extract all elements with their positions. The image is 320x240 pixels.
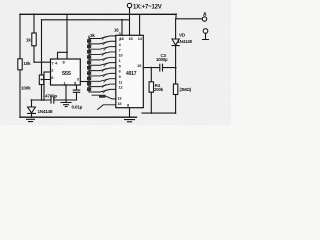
capacitor 0.01u pin5 <box>73 85 79 100</box>
svg-text:15: 15 <box>118 102 122 106</box>
svg-text:1: 1 <box>119 59 121 63</box>
terminal supply circle <box>127 3 131 7</box>
capacitor C3 1000u <box>160 64 163 71</box>
svg-text:1N4148: 1N4148 <box>38 109 54 114</box>
label output pins left column <box>119 32 123 89</box>
svg-text:1X:+7~12V: 1X:+7~12V <box>133 5 162 11</box>
wire pin14 from rail <box>139 14 141 35</box>
resistor 3M <box>175 68 177 84</box>
svg-text:3: 3 <box>119 32 121 36</box>
svg-text:VD: VD <box>179 33 186 38</box>
terminal A top right <box>202 17 206 21</box>
wire pin16 from reset line <box>121 20 123 36</box>
ground symbol left <box>27 119 35 121</box>
svg-text:555: 555 <box>62 71 71 77</box>
wire pin7 to 555 <box>34 61 51 63</box>
wire ground node horizontal <box>32 99 77 101</box>
wire 1k bottom to pin7 node <box>33 46 35 62</box>
ground symbol 4017 <box>125 120 135 122</box>
svg-text:15: 15 <box>129 37 133 41</box>
wire bottom right rail <box>142 112 176 114</box>
terminal output lower <box>203 29 208 34</box>
svg-text:15: 15 <box>137 64 141 68</box>
wire 4017 enable stubs <box>92 95 116 99</box>
svg-text:4700p: 4700p <box>45 93 57 98</box>
capacitor 4700p <box>51 97 54 103</box>
wire pins 4-8 tie <box>58 14 68 59</box>
wire 100k bottom <box>41 85 43 101</box>
wire reset line horizontal <box>42 19 130 21</box>
op-amp U1 555 box <box>51 59 81 85</box>
wire top supply rail <box>20 13 176 15</box>
svg-text:200k: 200k <box>154 87 164 92</box>
node junction dots <box>31 13 177 101</box>
svg-text:12: 12 <box>119 86 123 90</box>
svg-text:100k: 100k <box>21 86 31 91</box>
wire 1k branch from rail <box>33 14 35 33</box>
resistor 100k <box>39 75 43 85</box>
svg-text:9: 9 <box>119 75 121 79</box>
wire pin13 right <box>143 67 175 69</box>
svg-text:11: 11 <box>119 80 123 84</box>
IC U2 4017 box <box>116 35 144 107</box>
wire node vertical x42 <box>41 20 43 75</box>
wire pin1 down <box>65 85 67 100</box>
wire pin2 to 555 <box>44 71 51 73</box>
svg-text:1N4148: 1N4148 <box>178 39 193 44</box>
wire pin8 ground <box>129 108 131 118</box>
svg-text:3k: 3k <box>90 33 95 38</box>
svg-text:13: 13 <box>118 97 122 101</box>
svg-text:A: A <box>203 12 207 18</box>
ground symbol 555 <box>61 100 71 107</box>
wire left vertical rail <box>19 14 21 117</box>
wire pin6 to 555 <box>42 72 51 100</box>
wire pin3 output <box>80 81 90 83</box>
wire rail jog right <box>176 14 202 18</box>
svg-text:1k: 1k <box>26 38 31 43</box>
svg-text:2: 2 <box>119 38 121 42</box>
svg-text:5: 5 <box>119 64 121 68</box>
svg-text:10k: 10k <box>23 61 31 66</box>
svg-text:10: 10 <box>119 54 123 58</box>
wire ladder taps <box>89 36 116 92</box>
wire pin15 terminal drop <box>129 8 131 36</box>
diode 1N4148 left <box>31 100 33 107</box>
svg-text:(3MΩ): (3MΩ) <box>180 87 192 92</box>
resistor 10k <box>18 59 22 70</box>
svg-text:0.01µ: 0.01µ <box>72 105 83 110</box>
svg-text:7: 7 <box>119 48 121 52</box>
wire tap marks <box>102 36 107 93</box>
resistor ladder bodies 3k chain <box>87 39 91 91</box>
svg-text:1000µ: 1000µ <box>156 57 168 62</box>
svg-text:4017: 4017 <box>126 71 137 77</box>
wire bottom ground rail <box>20 116 137 118</box>
diode VD 1N4148 <box>175 19 177 39</box>
svg-text:6: 6 <box>119 70 121 74</box>
resistor R4 200k <box>150 68 152 82</box>
resistor 1k <box>32 33 36 46</box>
resistor ladder bus <box>88 36 90 92</box>
